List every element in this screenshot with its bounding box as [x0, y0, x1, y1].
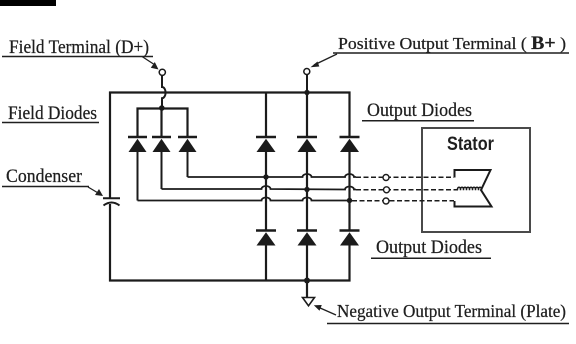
wire left edge lower segment (condenser to ground bus): [109, 204, 111, 282]
svg-text:Field Terminal (D+): Field Terminal (D+): [9, 38, 149, 58]
diode D6 (output top, column 3): [340, 137, 360, 152]
label Output Diodes (top): [362, 100, 474, 121]
label Condenser: [2, 167, 89, 187]
junction phase bus 2 / output column 2: [304, 187, 309, 192]
svg-text:Output Diodes: Output Diodes: [367, 100, 472, 121]
leader arrow to condenser: [88, 187, 103, 196]
diode D4 (output top, column 1): [256, 137, 276, 152]
diode D7 (output bottom, column 1): [256, 231, 276, 246]
svg-text:Condenser: Condenser: [6, 167, 82, 187]
leader arrow to B+ terminal: [311, 54, 338, 67]
svg-text:Output Diodes: Output Diodes: [376, 237, 482, 258]
wire negative output (below ground bus): [306, 281, 308, 298]
diode D9 (output bottom, column 3): [340, 231, 360, 246]
svg-text:Field Diodes: Field Diodes: [8, 104, 97, 124]
junction D+ wire on bracket: [159, 105, 165, 111]
junction output column 2 / ground bus: [304, 278, 310, 284]
wire ground bus (rectifier bottom edge): [109, 279, 351, 281]
label Negative Output Terminal (Plate): [327, 301, 569, 324]
diode D3 (field): [178, 137, 197, 152]
wire field branch 3 (below D3 to phase bus 1): [187, 152, 189, 177]
wire D+ terminal to field-diode bracket (hop over B+ bus): [162, 76, 166, 108]
wire field-diode bracket: [138, 109, 188, 137]
leader arrow to D+ terminal: [142, 57, 159, 70]
svg-text:Stator: Stator: [447, 134, 495, 155]
diode D8 (output bottom, column 2): [297, 231, 317, 246]
stator winding symbol: [455, 170, 492, 207]
wire B+ bus (rectifier top edge): [109, 91, 351, 93]
wire phase bus 1 (hops over columns 2,3): [188, 174, 357, 177]
wire output column 3 (rectifier right edge): [348, 92, 350, 282]
wire phase bus 3 (hops over columns 1,2): [138, 198, 353, 201]
junction B+ on top bus: [304, 90, 309, 95]
wire phase bus 2 (hops over columns 1,3): [162, 186, 357, 190]
terminal D+: [159, 69, 165, 75]
diode D1 (field): [128, 137, 147, 152]
wire phase lead 3 (bus 3 to stator, dashed): [352, 200, 454, 202]
wire output column 2: [306, 93, 308, 281]
wire field branch 2 (below D2 to phase bus 2): [161, 152, 163, 189]
leader arrow to ground symbol: [314, 305, 336, 315]
label Output Diodes (bottom): [371, 237, 491, 258]
wire phase lead 1 (bus 1 to stator, dashed): [356, 176, 454, 178]
diode D2 (field): [152, 137, 171, 152]
label Positive Output Terminal ( B+ ): [333, 33, 569, 54]
svg-text:Negative Output Terminal (Plat: Negative Output Terminal (Plate): [337, 301, 566, 322]
label Field Diodes: [2, 104, 99, 124]
junction phase bus 1 / output column 1: [263, 174, 268, 179]
wire field branch 1 (below D1 to phase bus 3): [137, 152, 139, 201]
stator box: [422, 128, 530, 232]
stator terminal 1: [383, 175, 389, 181]
label Field Terminal (D+): [2, 38, 153, 58]
ground arrow (negative terminal, plate): [303, 298, 315, 306]
svg-text:Positive Output Terminal ( B+: Positive Output Terminal ( B+ ): [338, 33, 566, 54]
capacitor C1 (condenser): [103, 198, 120, 205]
wire left edge upper segment (to condenser): [109, 92, 111, 198]
wire B+ terminal to top bus: [306, 75, 308, 93]
wire output column 1: [265, 93, 267, 281]
diode D5 (output top, column 2): [297, 137, 317, 152]
stator terminal 2: [384, 187, 390, 193]
terminal B+: [304, 69, 310, 75]
stator terminal 3: [383, 198, 389, 204]
wire phase lead 2 (bus 2 to stator, dashed): [356, 189, 458, 191]
junction phase bus 3 / output column 3: [347, 198, 352, 203]
